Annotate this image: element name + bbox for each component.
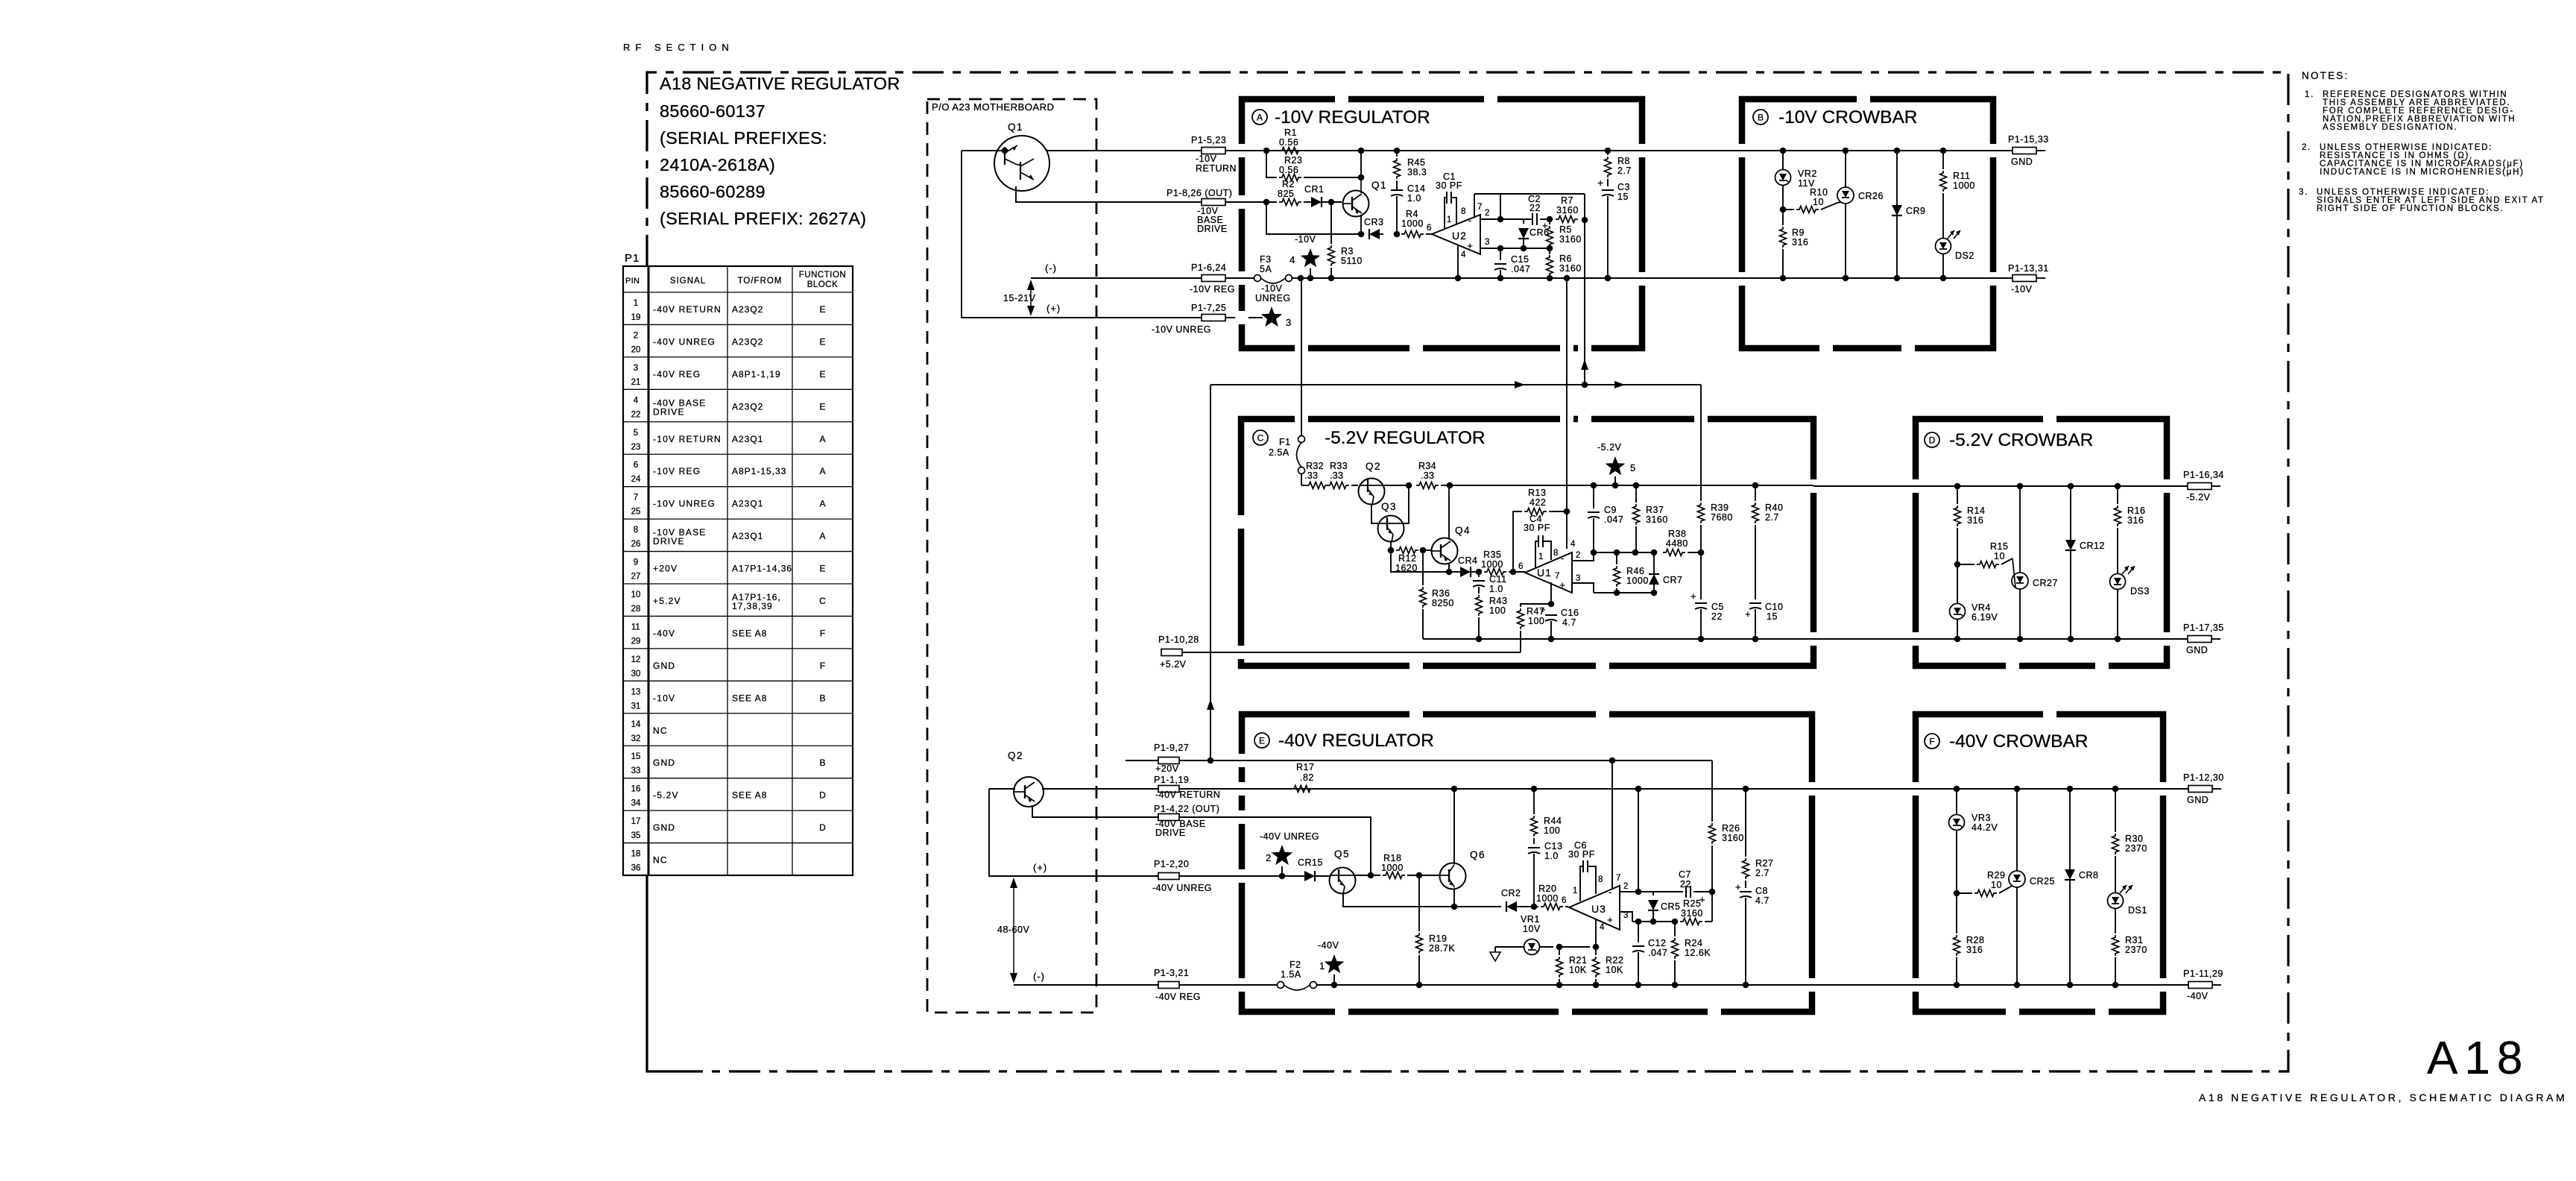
svg-text:3: 3 [1576, 574, 1580, 583]
svg-text:P1-6,24: P1-6,24 [1191, 262, 1226, 273]
svg-text:UNREG: UNREG [1255, 293, 1291, 303]
resistor R15 10 [1957, 564, 1974, 565]
svg-text:1: 1 [1573, 886, 1577, 895]
resistor R3 5110 column [1330, 202, 1332, 244]
svg-text:DS3: DS3 [2130, 586, 2150, 596]
U2 pin 4 stub [1457, 245, 1459, 278]
svg-text:R22: R22 [1606, 955, 1623, 966]
resistor R47 100 [1521, 604, 1551, 607]
svg-text:35: 35 [631, 831, 641, 840]
wire +20V to U3 pin7 [1611, 760, 1613, 888]
wire U3 pin2 row [1620, 891, 1683, 892]
resistor R20 1000 [1521, 906, 1538, 907]
svg-text:31: 31 [631, 702, 641, 711]
svg-text:Q1: Q1 [1008, 122, 1023, 133]
function block B border [1742, 99, 1993, 348]
capacitor C11 1.0 / resistor R43 100 column [1478, 572, 1480, 577]
lamp DS1 [2115, 856, 2116, 892]
resistor R17 .82 [1291, 786, 1313, 793]
svg-text:-10V UNREG: -10V UNREG [653, 499, 716, 509]
svg-text:R37: R37 [1646, 505, 1664, 515]
svg-text:RF SECTION: RF SECTION [623, 42, 734, 53]
wire block C bottom rail [1423, 638, 1813, 640]
svg-text:(-): (-) [1033, 971, 1045, 982]
svg-text:GND: GND [653, 661, 675, 671]
svg-text:22: 22 [1680, 879, 1691, 889]
svg-text:CR12: CR12 [2080, 541, 2105, 551]
svg-text:-5.2V: -5.2V [2186, 492, 2211, 503]
svg-text:13: 13 [631, 687, 641, 696]
svg-text:P/O A23 MOTHERBOARD: P/O A23 MOTHERBOARD [932, 101, 1054, 113]
svg-text:R35: R35 [1483, 549, 1501, 560]
svg-text:+: + [1690, 590, 1696, 602]
svg-text:+: + [1735, 881, 1741, 892]
function block E border [1242, 714, 1812, 1012]
svg-text:R23: R23 [1284, 155, 1302, 166]
svg-text:R31: R31 [2125, 935, 2143, 945]
resistor R31 2370 [2112, 935, 2119, 956]
op-amp U1 [1525, 552, 1572, 593]
resistor R26 3160 column [1711, 760, 1713, 822]
svg-text:R25: R25 [1683, 898, 1701, 909]
wire Q6 collector [1453, 789, 1455, 864]
svg-text:3160: 3160 [1722, 833, 1744, 843]
svg-text:GND: GND [653, 758, 675, 768]
wire (-) to P1-6,24 [1031, 277, 1202, 279]
svg-text:Q2: Q2 [1008, 750, 1023, 761]
svg-text:316: 316 [2127, 515, 2144, 526]
svg-text:+20V: +20V [653, 564, 678, 574]
svg-text:3: 3 [1623, 911, 1628, 920]
svg-text:3160: 3160 [1646, 514, 1668, 525]
svg-text:R5: R5 [1559, 224, 1572, 235]
svg-text:A: A [819, 531, 825, 541]
svg-text:1: 1 [1538, 552, 1543, 561]
wire Q1a collector [1360, 177, 1362, 193]
svg-text:-40V: -40V [653, 628, 675, 638]
zener VR4 6.19V [1957, 564, 1958, 603]
svg-text:3: 3 [634, 364, 638, 373]
wire Q2 collector to P1-1,19 [1042, 788, 1161, 790]
diode CR3 [1369, 229, 1380, 239]
svg-text:R45: R45 [1407, 157, 1425, 168]
svg-text:A: A [819, 434, 825, 444]
ground symbol [1495, 946, 1524, 948]
svg-text:1000: 1000 [1953, 180, 1975, 191]
svg-text:R26: R26 [1722, 823, 1740, 834]
svg-text:F: F [820, 661, 825, 671]
svg-text:SEE A8: SEE A8 [732, 628, 767, 638]
svg-text:SEE A8: SEE A8 [732, 790, 767, 801]
lamp DS3 [2117, 528, 2118, 573]
svg-text:C11: C11 [1489, 574, 1507, 585]
capacitor C10 15 [1749, 602, 1761, 604]
svg-text:CR5: CR5 [1661, 901, 1681, 912]
fuse F1 2.5A [1301, 278, 1302, 436]
resistor R46 1000 [1616, 552, 1617, 564]
SCR CR27 [2019, 486, 2021, 573]
svg-text:R29: R29 [1987, 870, 2005, 881]
svg-text:30: 30 [631, 670, 641, 678]
svg-text:R32: R32 [1306, 461, 1324, 471]
svg-text:R44: R44 [1544, 816, 1562, 826]
svg-text:.82: .82 [1300, 772, 1314, 783]
svg-text:-5.2V: -5.2V [653, 790, 679, 801]
diode CR1 [1304, 201, 1311, 203]
svg-text:22: 22 [1711, 611, 1723, 622]
svg-text:-5.2V CROWBAR: -5.2V CROWBAR [1949, 430, 2093, 450]
svg-text:C7: C7 [1679, 869, 1691, 880]
svg-text:-40V RETURN: -40V RETURN [1155, 790, 1220, 800]
resistor R6 3160 column [1549, 248, 1550, 254]
svg-text:R6: R6 [1559, 253, 1572, 264]
svg-text:2.: 2. [2302, 143, 2311, 152]
wire U1 feedback row [1594, 552, 1655, 553]
svg-text:U2: U2 [1452, 230, 1467, 242]
wire Q1a emitter to CR3 node [1360, 215, 1362, 234]
svg-text:Q4: Q4 [1455, 525, 1471, 536]
block B title [1753, 110, 1768, 125]
svg-text:2: 2 [1485, 209, 1489, 218]
svg-text:R28: R28 [1966, 935, 1984, 945]
svg-text:R43: R43 [1489, 596, 1507, 606]
resistor R8 2.7 / capacitor C3 15 column [1607, 151, 1609, 155]
block F title [1925, 734, 1939, 749]
48-60V dimension arrows [1013, 880, 1014, 981]
svg-text:VR2: VR2 [1798, 169, 1817, 179]
svg-text:316: 316 [1967, 515, 1983, 526]
U1 pin7 stub / capacitor C16 4.7 [1550, 582, 1552, 604]
svg-text:R14: R14 [1967, 506, 1985, 516]
U2 pin stubs and power line [1474, 194, 1475, 217]
svg-text:22: 22 [1529, 203, 1541, 213]
wire -10V RETURN rail (block A) [1225, 150, 1642, 151]
svg-text:3160: 3160 [1559, 234, 1582, 245]
svg-text:23: 23 [631, 443, 641, 452]
svg-text:C14: C14 [1407, 183, 1425, 194]
svg-text:7: 7 [1555, 572, 1559, 581]
wire -5.2V output rail (block C) [1450, 485, 1813, 486]
svg-text:R40: R40 [1765, 503, 1783, 513]
wire GND rail E to F to P1-12,30 [1812, 788, 2188, 790]
svg-text:5110: 5110 [1341, 256, 1363, 266]
svg-text:-40V CROWBAR: -40V CROWBAR [1949, 731, 2089, 752]
svg-text:P1-11,29: P1-11,29 [2183, 969, 2223, 979]
resistors R32 R33 .33 .33 [1301, 485, 1306, 486]
svg-text:7680: 7680 [1711, 512, 1733, 523]
svg-text:10: 10 [1813, 197, 1824, 207]
wire Q2 base branch to (+) [989, 788, 1015, 790]
svg-text:5A: 5A [1260, 264, 1272, 274]
svg-text:RETURN: RETURN [1196, 163, 1237, 174]
svg-text:F: F [1929, 737, 1934, 747]
wire -10V REG rail (block A) [1301, 277, 1642, 279]
svg-text:8: 8 [634, 526, 638, 535]
wire U3 pin3 row [1632, 921, 1677, 922]
svg-text:C13: C13 [1544, 841, 1562, 851]
svg-text:2.7: 2.7 [1755, 868, 1770, 878]
svg-text:E: E [1259, 736, 1265, 746]
wire Q2c emitter to Q3 [1371, 505, 1378, 523]
svg-text:P1-16,34: P1-16,34 [2183, 470, 2224, 480]
svg-text:30 PF: 30 PF [1524, 523, 1550, 533]
svg-text:NC: NC [653, 725, 668, 736]
diode CR15 [1304, 871, 1315, 881]
svg-text:.33: .33 [1421, 470, 1434, 481]
svg-text:R13: R13 [1528, 488, 1546, 498]
svg-text:-10V: -10V [1196, 154, 1217, 164]
P/O A23 motherboard dashed box [927, 99, 1096, 1012]
block C title [1253, 430, 1268, 445]
svg-text:VR3: VR3 [1972, 813, 1991, 823]
function block A border [1242, 99, 1642, 348]
capacitor C6 30 PF [1580, 866, 1583, 901]
svg-text:33: 33 [631, 766, 641, 775]
svg-text:P1-10,28: P1-10,28 [1158, 634, 1199, 645]
svg-text:8250: 8250 [1432, 598, 1454, 608]
function block D border [1916, 419, 2167, 666]
block A title [1252, 110, 1267, 125]
svg-text:.33: .33 [1304, 470, 1318, 481]
svg-text:P1-3,21: P1-3,21 [1154, 968, 1189, 978]
svg-text:A18 NEGATIVE REGULATOR: A18 NEGATIVE REGULATOR [660, 74, 900, 93]
svg-text:P1-17,35: P1-17,35 [2183, 623, 2224, 633]
svg-text:1000: 1000 [1381, 863, 1404, 873]
resistor R19 28.7K column [1418, 875, 1420, 931]
svg-text:2: 2 [1576, 551, 1580, 560]
capacitor C15 .047 column [1500, 248, 1501, 260]
svg-text:10: 10 [1994, 551, 2005, 561]
diode CR6 [1523, 219, 1524, 224]
svg-text:+20V: +20V [1155, 763, 1179, 774]
svg-text:1000: 1000 [1626, 576, 1649, 586]
svg-text:10: 10 [1991, 880, 2002, 890]
svg-text:R17: R17 [1296, 762, 1314, 772]
svg-text:DRIVE: DRIVE [653, 536, 685, 547]
svg-text:10: 10 [631, 590, 641, 599]
resistor R4 1000 [1401, 231, 1424, 238]
svg-text:BLOCK: BLOCK [807, 280, 839, 289]
block D title [1925, 432, 1939, 447]
svg-text:5: 5 [1630, 462, 1635, 473]
resistor R7 3160 [1556, 216, 1578, 223]
svg-text:P1-5,23: P1-5,23 [1191, 135, 1226, 145]
svg-text:14: 14 [631, 720, 641, 729]
svg-text:F3: F3 [1260, 254, 1272, 265]
svg-text:-: - [1561, 552, 1564, 564]
svg-text:1: 1 [634, 299, 638, 308]
wire -10V REG feed to U1 pin4 [1566, 278, 1568, 511]
resistor R24 12.6K column [1674, 922, 1676, 936]
svg-text:A18 NEGATIVE REGULATOR, SCHEMA: A18 NEGATIVE REGULATOR, SCHEMATIC DIAGRA… [2199, 1092, 2567, 1103]
svg-text:15: 15 [1767, 611, 1778, 622]
svg-text:C15: C15 [1511, 254, 1529, 265]
svg-text:CR9: CR9 [1906, 206, 1926, 216]
svg-text:3160: 3160 [1681, 908, 1703, 919]
page dash-dot border [647, 72, 2288, 1071]
svg-text:INDUCTANCE IS IN MICROHENRIES(: INDUCTANCE IS IN MICROHENRIES(μH) [2320, 168, 2525, 177]
wire Q2c collector to R34 node [1384, 485, 1409, 486]
svg-text:CR4: CR4 [1458, 555, 1478, 566]
svg-text:5: 5 [634, 429, 638, 438]
capacitor C9 .047 column [1593, 486, 1594, 508]
svg-text:C: C [1257, 433, 1264, 444]
svg-text:21: 21 [631, 378, 641, 387]
resistor R13 422 feedback [1513, 511, 1522, 572]
svg-text:1: 1 [1447, 215, 1451, 224]
svg-text:E: E [819, 336, 825, 347]
resistor R34 .33 [1416, 482, 1439, 489]
function block F border [1916, 714, 2163, 1012]
svg-text:36: 36 [631, 864, 641, 873]
wire U2 pin3 row [1480, 248, 1550, 249]
svg-text:30 PF: 30 PF [1568, 849, 1595, 860]
resistor R28 316 [1956, 893, 1957, 933]
svg-text:R38: R38 [1668, 529, 1686, 539]
svg-text:R36: R36 [1432, 588, 1450, 599]
svg-text:ASSEMBLY DESIGNATION.: ASSEMBLY DESIGNATION. [2323, 123, 2457, 132]
svg-text:7: 7 [634, 494, 638, 503]
svg-text:R47: R47 [1527, 606, 1544, 617]
svg-text:12: 12 [631, 655, 641, 664]
svg-text:-10V: -10V [2011, 284, 2033, 295]
resistor R1 0.56 [1279, 148, 1301, 154]
svg-text:1.5A: 1.5A [1281, 969, 1301, 980]
fuse F2 1.5A [1179, 984, 1277, 986]
svg-text:8: 8 [1598, 875, 1603, 884]
wire Q5 collector [1354, 875, 1380, 876]
svg-text:-40V REG: -40V REG [653, 369, 701, 380]
svg-text:CR27: CR27 [2033, 578, 2058, 588]
svg-text:F: F [820, 628, 825, 638]
wire (-) to P1-3,21 [1014, 984, 1161, 986]
svg-text:4.7: 4.7 [1755, 895, 1770, 906]
svg-text:SIGNAL: SIGNAL [670, 277, 706, 286]
capacitor C5 22 [1700, 552, 1702, 599]
svg-text:CR7: CR7 [1663, 575, 1683, 585]
wire Q6 emitter [1453, 889, 1455, 907]
wire +20V line into block E [1179, 760, 1712, 761]
svg-text:U3: U3 [1591, 903, 1606, 915]
svg-text:P1-12,30: P1-12,30 [2183, 772, 2224, 783]
svg-text:-40V UNREG: -40V UNREG [653, 336, 716, 347]
wire -40V UNREG entry [1179, 875, 1304, 877]
svg-text:E: E [819, 369, 825, 380]
resistor R10 10 [1783, 209, 1794, 210]
svg-text:1: 1 [1319, 960, 1325, 971]
svg-text:CR26: CR26 [1858, 191, 1884, 201]
svg-text:A23Q2: A23Q2 [732, 336, 763, 347]
wire -10V rail A to B to P1-13,31 [1642, 277, 2012, 279]
resistor R16 316 [2117, 486, 2118, 504]
wire Q1 left branch down to (+) [962, 150, 1005, 151]
svg-text:+: + [1745, 608, 1751, 620]
resistor R25 3160 [1680, 919, 1702, 925]
svg-text:-40V: -40V [2187, 991, 2209, 1001]
svg-text:DRIVE: DRIVE [1155, 828, 1186, 838]
P1 pin table [623, 266, 853, 875]
svg-text:25: 25 [631, 508, 641, 517]
svg-text:1.0: 1.0 [1489, 584, 1503, 594]
svg-text:-40V REG: -40V REG [1155, 992, 1201, 1002]
svg-text:B: B [819, 693, 825, 703]
svg-text:38.3: 38.3 [1407, 167, 1427, 177]
diode CR12 [2070, 486, 2071, 540]
svg-text:+5.2V: +5.2V [653, 596, 681, 606]
svg-text:PIN: PIN [625, 277, 640, 286]
svg-text:DRIVE: DRIVE [653, 406, 685, 417]
wire Q1 collector to P1-5,23 [1046, 150, 1202, 151]
svg-text:18: 18 [631, 850, 641, 859]
svg-text:CR1: CR1 [1304, 184, 1325, 195]
svg-text:NC: NC [653, 855, 668, 866]
resistor R21 10K [1559, 947, 1560, 955]
svg-text:-10V CROWBAR: -10V CROWBAR [1778, 107, 1918, 127]
svg-text:11: 11 [631, 623, 640, 632]
svg-text:20: 20 [631, 345, 641, 354]
wire U1 pin3 jog [1572, 583, 1594, 593]
svg-text:R20: R20 [1538, 884, 1556, 894]
svg-text:6: 6 [634, 461, 638, 470]
svg-text:4.7: 4.7 [1562, 617, 1576, 628]
svg-text:0.56: 0.56 [1279, 165, 1298, 175]
resistor R23 0.56 parallel branch [1266, 151, 1277, 177]
svg-text:A23Q1: A23Q1 [732, 434, 763, 444]
svg-text:R21: R21 [1569, 955, 1587, 966]
SCR CR25 [2016, 789, 2018, 871]
svg-text:A8P1-1,19: A8P1-1,19 [732, 369, 781, 380]
svg-text:100: 100 [1544, 825, 1560, 836]
svg-text:28: 28 [631, 605, 641, 614]
svg-text:-10V REGULATOR: -10V REGULATOR [1275, 107, 1430, 127]
resistor R12 1620 [1396, 547, 1418, 554]
svg-text:24: 24 [631, 475, 641, 484]
svg-text:7: 7 [1616, 874, 1620, 883]
svg-text:316: 316 [1966, 945, 1983, 955]
svg-text:15: 15 [1617, 192, 1629, 202]
svg-text:-10V UNREG: -10V UNREG [1152, 324, 1211, 335]
svg-text:-40V RETURN: -40V RETURN [653, 304, 722, 315]
svg-text:19: 19 [631, 313, 641, 322]
R7 node column to reference line [1584, 194, 1585, 220]
svg-text:-10V: -10V [1295, 234, 1316, 245]
svg-text:R2: R2 [1282, 179, 1295, 189]
svg-text:-40V UNREG: -40V UNREG [1260, 831, 1319, 842]
op-amp U3 [1569, 886, 1620, 930]
wire U1 pin2 jog [1572, 552, 1594, 561]
wire -40V base drive [1179, 817, 1371, 875]
svg-text:Q2: Q2 [1366, 461, 1381, 472]
svg-text:2.7: 2.7 [1617, 166, 1632, 176]
svg-text:R15: R15 [1990, 541, 2008, 552]
svg-text:-10V REG: -10V REG [1190, 284, 1235, 295]
svg-text:C: C [819, 596, 826, 606]
wire -40V RETURN rail [1179, 788, 1812, 790]
svg-text:825: 825 [1278, 189, 1294, 199]
svg-text:-10V RETURN: -10V RETURN [653, 434, 722, 444]
svg-text:.047: .047 [1604, 514, 1623, 525]
svg-text:(+): (+) [1033, 862, 1047, 873]
svg-text:A23Q1: A23Q1 [732, 499, 763, 509]
svg-text:B: B [819, 758, 825, 768]
svg-text:VR1: VR1 [1521, 914, 1540, 925]
capacitor C2 22 [1529, 218, 1532, 220]
svg-text:C8: C8 [1755, 886, 1768, 896]
svg-text:1.: 1. [2305, 90, 2314, 99]
svg-text:100: 100 [1489, 605, 1506, 616]
svg-text:+: + [1597, 177, 1603, 189]
svg-text:R12: R12 [1398, 553, 1416, 564]
